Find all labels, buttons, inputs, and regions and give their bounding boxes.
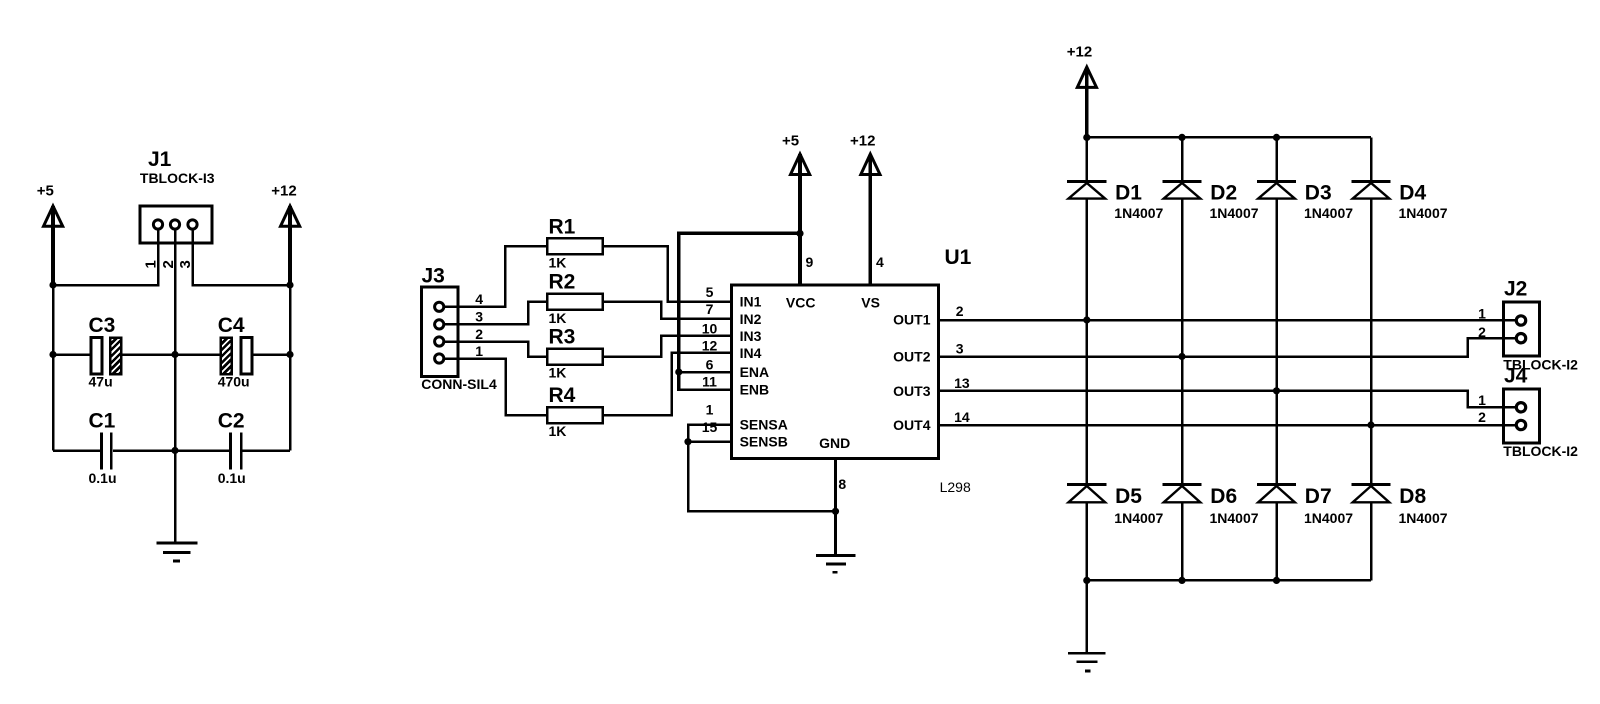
svg-text:1: 1 [1478, 305, 1486, 321]
capacitor C1 [89, 410, 117, 486]
svg-text:5: 5 [706, 284, 714, 300]
junction dot top bus 3 [1273, 134, 1280, 141]
svg-text:VS: VS [861, 294, 880, 310]
junction dot OUT1-D1 [1083, 316, 1090, 323]
junction dot OUT3-D3 [1273, 387, 1280, 394]
wire J1 pin1 to +5 bus [53, 231, 158, 286]
connector J3 [421, 265, 497, 393]
svg-text:1N4007: 1N4007 [1399, 205, 1448, 221]
wire J1 pin3 to +12 bus [193, 231, 291, 286]
svg-text:2: 2 [1478, 409, 1486, 425]
svg-text:VCC: VCC [786, 294, 816, 310]
wire +5 to ENA ENB [679, 233, 800, 389]
svg-text:12: 12 [702, 338, 718, 354]
junction dot C4 right [286, 351, 293, 358]
wire OUT1 to J2 pin1 [939, 319, 1515, 322]
wire J3 pin4 to R1 [445, 246, 547, 306]
wire R3 to IN3 [603, 336, 732, 357]
diode D7 [1257, 484, 1353, 526]
svg-text:D2: D2 [1210, 181, 1237, 204]
svg-text:IN4: IN4 [740, 345, 762, 361]
connector J2 [1503, 278, 1578, 373]
op-amp U1 box [732, 246, 972, 495]
wire to ground (right) [1086, 580, 1089, 652]
svg-text:1K: 1K [549, 423, 567, 439]
wire top bus [1087, 136, 1371, 139]
junction dot top bus 2 [1178, 134, 1185, 141]
svg-text:2: 2 [956, 303, 964, 319]
svg-text:15: 15 [702, 419, 718, 435]
wire ENB stub [677, 388, 732, 391]
svg-text:0.1u: 0.1u [89, 470, 117, 486]
junction dot +5 bus [49, 281, 56, 288]
wire SENS to ground net [688, 442, 836, 512]
power +12 (left) [271, 183, 299, 285]
svg-text:OUT1: OUT1 [893, 311, 931, 327]
svg-text:+5: +5 [782, 133, 799, 150]
wire bottom bus [1087, 579, 1371, 582]
svg-text:IN1: IN1 [740, 294, 762, 310]
ground (middle) [816, 556, 856, 573]
svg-text:D1: D1 [1115, 181, 1142, 204]
power +12 (middle) [850, 133, 880, 286]
svg-text:2: 2 [475, 326, 483, 342]
svg-text:8: 8 [838, 476, 846, 492]
wire column D4 [1370, 137, 1373, 181]
diode D4 [1351, 181, 1447, 221]
wire column D2 [1181, 137, 1184, 181]
svg-text:C2: C2 [218, 410, 245, 433]
wire OUT2 to J2 pin2 [939, 338, 1515, 356]
junction dot C3 left [49, 351, 56, 358]
wire left rail [52, 285, 55, 451]
wire J1 pin2 down to ground [174, 231, 177, 544]
junction dot +12 bus [286, 281, 293, 288]
power +5 (left) [37, 183, 63, 285]
svg-text:4: 4 [475, 291, 483, 307]
junction dot bottom bus 3 [1273, 577, 1280, 584]
junction dot C3-C4 center [171, 351, 178, 358]
junction dot bottom bus 2 [1178, 577, 1185, 584]
svg-text:13: 13 [954, 375, 970, 391]
svg-text:3: 3 [956, 341, 964, 357]
svg-text:TBLOCK-I3: TBLOCK-I3 [140, 170, 215, 186]
diode D5 [1067, 484, 1163, 526]
svg-text:IN3: IN3 [740, 328, 762, 344]
svg-text:R4: R4 [549, 384, 576, 407]
junction dot OUT2-D2 [1178, 353, 1185, 360]
resistor R2 [547, 271, 603, 326]
svg-text:J4: J4 [1504, 364, 1528, 387]
svg-text:1N4007: 1N4007 [1304, 205, 1353, 221]
svg-text:D3: D3 [1305, 181, 1332, 204]
svg-text:ENA: ENA [740, 364, 770, 380]
wire GND pin down [834, 459, 837, 555]
svg-text:9: 9 [806, 254, 814, 270]
svg-text:4: 4 [876, 254, 884, 270]
svg-text:3: 3 [475, 309, 483, 325]
svg-text:1N4007: 1N4007 [1304, 510, 1353, 526]
svg-text:+5: +5 [37, 183, 54, 200]
svg-text:1K: 1K [549, 310, 567, 326]
svg-text:C3: C3 [89, 314, 116, 337]
svg-text:11: 11 [702, 373, 717, 389]
svg-text:6: 6 [706, 356, 714, 372]
capacitor C4 [218, 314, 252, 390]
power +12 (right) [1067, 44, 1097, 138]
svg-text:+12: +12 [1067, 44, 1092, 61]
svg-text:D6: D6 [1210, 485, 1237, 508]
svg-text:10: 10 [702, 321, 718, 337]
svg-text:0.1u: 0.1u [218, 470, 246, 486]
svg-text:ENB: ENB [740, 382, 770, 398]
svg-text:TBLOCK-I2: TBLOCK-I2 [1503, 443, 1578, 459]
wire R2 to IN2 [603, 302, 732, 319]
svg-text:1N4007: 1N4007 [1114, 510, 1163, 526]
junction dot GND net [832, 508, 839, 515]
wire J3 pin2 to R3 [445, 342, 547, 357]
wire C1 row [53, 449, 100, 452]
diode D2 [1162, 181, 1258, 221]
svg-text:D8: D8 [1399, 485, 1426, 508]
capacitor C3 [89, 314, 124, 390]
svg-text:U1: U1 [945, 246, 972, 269]
svg-text:C1: C1 [89, 410, 116, 433]
wire R4 to IN4 [603, 353, 732, 415]
svg-text:1N4007: 1N4007 [1210, 510, 1259, 526]
resistor R4 [547, 384, 603, 439]
svg-text:1: 1 [706, 402, 714, 418]
svg-text:7: 7 [706, 301, 714, 317]
junction dot SENSB [684, 438, 691, 445]
ground (right) [1068, 653, 1106, 671]
svg-text:+12: +12 [271, 183, 296, 200]
svg-text:OUT2: OUT2 [893, 349, 931, 365]
junction dot C1-C2 center [171, 447, 178, 454]
svg-text:C4: C4 [218, 314, 245, 337]
ground (left) [156, 543, 197, 561]
diode D3 [1257, 181, 1353, 221]
connector J4 [1503, 364, 1578, 459]
svg-text:1K: 1K [549, 254, 567, 270]
wire ENA stub [677, 371, 732, 374]
wire J3 pin1 to R4 [445, 359, 547, 416]
svg-text:R3: R3 [549, 326, 576, 349]
svg-text:GND: GND [819, 435, 850, 451]
wire column D3 [1275, 137, 1278, 181]
wire right rail [289, 285, 292, 451]
wire column D1 [1086, 137, 1089, 181]
junction dot OUT4-D4 [1367, 421, 1374, 428]
svg-text:R1: R1 [549, 215, 576, 238]
svg-text:OUT4: OUT4 [893, 417, 931, 433]
wire R1 to IN1 [603, 246, 732, 301]
junction dot top bus 1 [1083, 134, 1090, 141]
svg-text:D5: D5 [1115, 485, 1142, 508]
diode D1 [1067, 181, 1163, 221]
connector J1 [140, 148, 215, 243]
svg-text:J3: J3 [422, 265, 445, 288]
svg-text:47u: 47u [89, 374, 113, 390]
svg-text:SENSA: SENSA [740, 417, 788, 433]
wire VCC pin [798, 233, 802, 285]
diode D8 [1351, 484, 1447, 526]
svg-text:2: 2 [1478, 324, 1486, 340]
resistor R1 [547, 215, 603, 270]
svg-text:D7: D7 [1305, 485, 1332, 508]
svg-text:1N4007: 1N4007 [1399, 510, 1448, 526]
svg-text:470u: 470u [218, 374, 250, 390]
svg-text:1K: 1K [549, 365, 567, 381]
svg-text:14: 14 [954, 409, 970, 425]
svg-text:CONN-SIL4: CONN-SIL4 [421, 376, 497, 392]
svg-text:1N4007: 1N4007 [1114, 205, 1163, 221]
wire C3 row [53, 353, 91, 356]
power +5 (middle) [782, 133, 810, 234]
svg-text:J1: J1 [148, 148, 172, 171]
junction dot ENA [675, 368, 682, 375]
wire J3 pin3 to R2 [445, 302, 547, 325]
svg-text:SENSB: SENSB [740, 434, 788, 450]
svg-text:OUT3: OUT3 [893, 383, 931, 399]
svg-text:R2: R2 [549, 271, 576, 294]
svg-text:IN2: IN2 [740, 311, 762, 327]
svg-text:1: 1 [475, 343, 483, 359]
svg-text:1N4007: 1N4007 [1210, 205, 1259, 221]
wire OUT3 to J4 pin1 [939, 391, 1515, 408]
svg-text:D4: D4 [1399, 181, 1426, 204]
diode D6 [1162, 484, 1258, 526]
wire SENSA jog [688, 425, 732, 442]
wire OUT4 to J4 pin2 [939, 424, 1515, 427]
svg-text:L298: L298 [940, 479, 971, 495]
svg-text:1: 1 [1478, 392, 1486, 408]
wire SENSB stub [688, 440, 732, 443]
svg-text:J2: J2 [1504, 278, 1527, 301]
resistor R3 [547, 326, 603, 381]
junction dot VCC node [796, 230, 803, 237]
capacitor C2 [218, 410, 246, 486]
junction dot bottom bus 1 [1083, 577, 1090, 584]
svg-text:+12: +12 [850, 133, 875, 150]
